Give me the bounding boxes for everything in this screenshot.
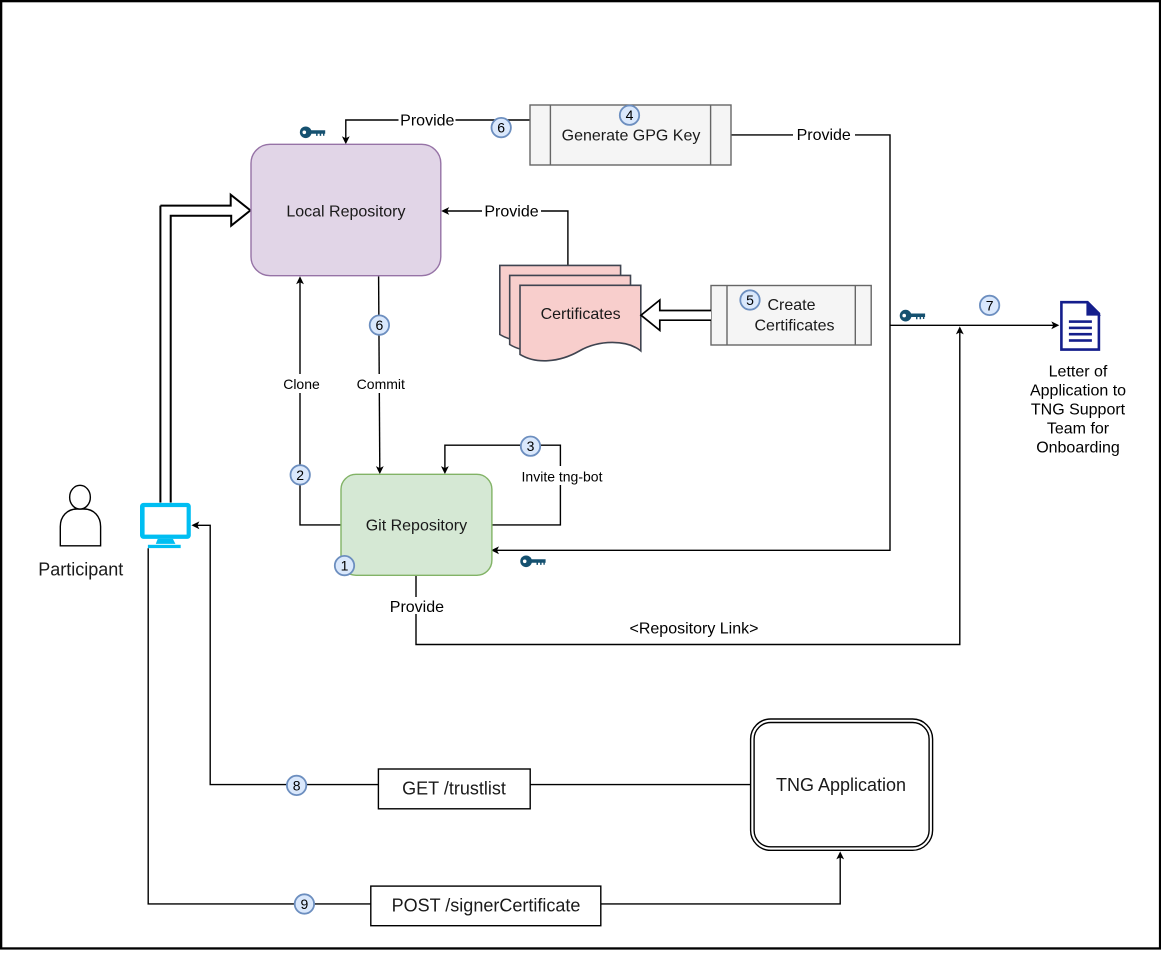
key icon above Local Repository [300, 126, 325, 138]
label Commit [353, 374, 408, 393]
svg-text:TNG Application: TNG Application [776, 775, 906, 795]
wire: edge E8 TNG Application to computer (GET /trustlist) [196, 525, 751, 784]
node circle 1 [335, 556, 354, 575]
label Invite tng-bot [518, 466, 606, 485]
svg-text:5: 5 [746, 292, 754, 308]
svg-text:7: 7 [986, 297, 994, 313]
svg-text:Participant: Participant [38, 560, 123, 580]
node circle 6 (commit) [370, 315, 389, 334]
svg-text:POST /signerCertificate: POST /signerCertificate [392, 896, 581, 916]
label Provide (git bottom) [386, 597, 447, 614]
svg-text:Local Repository: Local Repository [286, 203, 405, 220]
wire: edge E7b junction to Letter document [890, 324, 1054, 326]
computer monitor icon [140, 503, 191, 548]
key icon near letter [900, 310, 925, 322]
node circle 5 [740, 290, 759, 309]
wire: edge E9 computer to TNG Application (POST /signerCertificate) [148, 548, 840, 904]
svg-text:Certificates: Certificates [754, 317, 834, 334]
wire: edge E5 Commit (Local Repository to Git Repository) [379, 276, 380, 469]
certificates document stack (front) [520, 285, 641, 360]
wire: edge E4 Clone (Git Repository to Local Repository) [300, 281, 341, 525]
wire: edge E1 Generate GPG Key to Local Repository (Provide) [346, 120, 530, 140]
participant person icon [60, 485, 100, 545]
svg-text:Commit: Commit [357, 376, 405, 392]
box TNG Application [751, 719, 933, 850]
box Git Repository [341, 474, 492, 575]
wire: edge E7a Git Repository bottom to Repository Link riser [416, 331, 960, 645]
box Local Repository [251, 144, 441, 275]
certificates document stack (back) [500, 265, 621, 340]
box Generate GPG Key [530, 105, 731, 165]
svg-text:6: 6 [497, 120, 505, 136]
box POST /signerCertificate [371, 886, 601, 926]
box GET /trustlist [378, 769, 530, 809]
node circle 8 [287, 776, 306, 795]
node circle 7 [980, 296, 999, 315]
svg-text:Clone: Clone [283, 376, 320, 392]
label Letter of Application [1030, 364, 1126, 457]
label Provide (middle) [482, 203, 541, 220]
wire: link arrow from computer to Local Repository [160, 195, 250, 503]
svg-text:6: 6 [376, 317, 384, 333]
certificates document stack (middle) [510, 275, 631, 350]
svg-text:GET /trustlist: GET /trustlist [402, 778, 506, 798]
svg-text:Invite tng-bot: Invite tng-bot [522, 468, 603, 484]
svg-text:Provide: Provide [484, 203, 538, 220]
key icon right of Git Repository [520, 555, 545, 567]
wire: edge E3 Certificates to Local Repository (Provide) [446, 211, 568, 265]
svg-text:4: 4 [626, 107, 634, 123]
letter document icon [1061, 301, 1101, 350]
node circle 9 [295, 894, 314, 913]
svg-text:3: 3 [527, 438, 535, 454]
svg-text:Create: Create [767, 297, 815, 314]
svg-text:TNG Support: TNG Support [1031, 402, 1126, 419]
label Provide (top-left) [399, 112, 456, 129]
svg-text:Git Repository: Git Repository [366, 517, 467, 534]
box Create Certificates [711, 286, 871, 346]
svg-text:1: 1 [341, 558, 349, 574]
node circle 2 [291, 465, 310, 484]
node circle 4 [620, 106, 639, 125]
node circle 3 [521, 437, 540, 456]
svg-text:8: 8 [293, 777, 301, 793]
svg-text:9: 9 [301, 896, 309, 912]
svg-text:Provide: Provide [400, 112, 454, 129]
svg-text:Certificates: Certificates [541, 306, 621, 323]
svg-text:Generate GPG Key: Generate GPG Key [562, 127, 701, 144]
wire: edge E2 Generate GPG Key right Provide, down to Git Repository [496, 135, 891, 550]
link arrow Create Certificates to Certificates docs [641, 300, 711, 330]
svg-text:Provide: Provide [390, 599, 444, 616]
svg-text:Team for: Team for [1047, 420, 1110, 437]
svg-text:Provide: Provide [797, 127, 851, 144]
label Provide (right of GPG key box) [793, 127, 855, 144]
svg-text:<Repository Link>: <Repository Link> [630, 621, 759, 638]
label Clone [281, 374, 322, 393]
svg-text:Application to: Application to [1030, 383, 1126, 400]
node circle 6 (top) [492, 118, 511, 137]
wire: edge E6 Invite tng-bot loop [445, 445, 561, 525]
svg-text:2: 2 [296, 467, 304, 483]
svg-text:Onboarding: Onboarding [1036, 439, 1120, 456]
svg-text:Letter of: Letter of [1049, 364, 1108, 381]
